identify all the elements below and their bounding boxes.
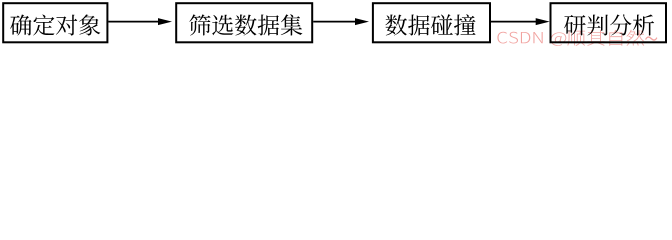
watermark tilde: [645, 36, 657, 40]
process box3: rectangle: [373, 3, 490, 42]
watermark text CSDN: [497, 32, 542, 44]
arrow connector 3: wire shaft: [491, 18, 550, 25]
box3 label text: 数据碰撞: [386, 14, 476, 35]
box1 label text: 确定对象: [10, 15, 100, 36]
process box2: rectangle: [176, 3, 312, 42]
process box1: rectangle: [3, 3, 107, 42]
box2 label text: 筛选数据集: [189, 14, 302, 35]
box4 label text: 研判分析: [564, 14, 654, 35]
process box4: rectangle: [551, 3, 667, 42]
watermark text 顺其自然: [567, 30, 644, 46]
arrow connector 1: wire shaft: [108, 18, 172, 25]
watermark @ sign: [551, 32, 567, 46]
arrow connector 2: wire shaft: [313, 18, 369, 25]
